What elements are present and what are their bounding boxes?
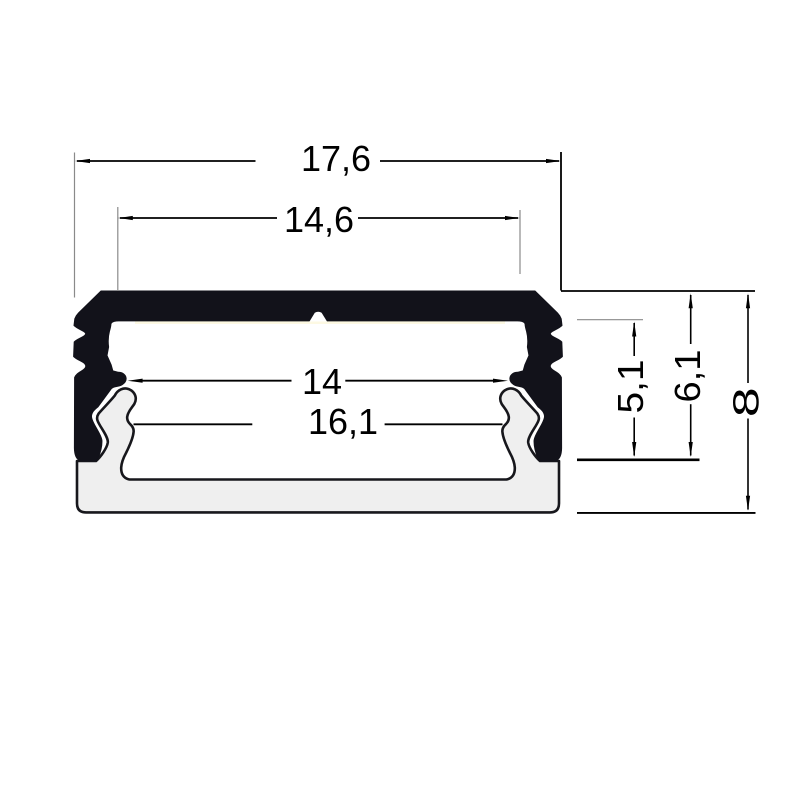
svg-text:8: 8 [726, 387, 767, 417]
svg-text:6,1: 6,1 [667, 350, 708, 403]
dimension 5,1 line lower segment [633, 418, 635, 456]
arrowhead left of dimension 17,6 [75, 159, 90, 163]
arrowhead bottom of dimension 8 [746, 496, 750, 511]
svg-text:14: 14 [302, 361, 342, 402]
svg-text:17,6: 17,6 [301, 138, 371, 179]
profile base tray with LED channel and retaining arms [77, 388, 559, 512]
dimension 14,6 line right segment [358, 217, 518, 219]
extension line right of dimension 14,6 [519, 210, 521, 274]
arrowhead top of dimension 8 [746, 293, 750, 308]
arrowhead top of dimension 6,1 [689, 293, 693, 308]
extension line profile bottom for dimension 8 [577, 512, 756, 514]
dimension 14 line left segment [140, 380, 292, 382]
dimension 16,1 line left segment [134, 423, 253, 425]
arrowhead right of dimension 14,6 [505, 216, 520, 220]
diffuser glow line under cover [135, 321, 505, 324]
dimension 8 line upper segment [747, 295, 749, 383]
profile top cover section [74, 291, 563, 461]
arrowhead right of dimension 14 [493, 379, 508, 383]
dimension 14 line right segment [345, 380, 495, 382]
extension line shelf level for dimensions 5,1 and 6,1 [577, 458, 700, 461]
extension line left of dimension 17,6 [74, 153, 76, 298]
dimension 8 line lower segment [747, 419, 749, 510]
arrowhead bottom of dimension 5,1 [632, 442, 636, 457]
svg-text:16,1: 16,1 [308, 401, 378, 442]
dimension 5,1 line upper segment [633, 323, 635, 356]
arrowhead bottom of dimension 6,1 [689, 442, 693, 457]
svg-text:14,6: 14,6 [284, 199, 354, 240]
dimension 6,1 line lower segment [690, 404, 692, 455]
arrowhead left of dimension 14 [128, 379, 143, 383]
arrowhead right of dimension 17,6 [546, 159, 561, 163]
arrowhead top of dimension 5,1 [632, 322, 636, 337]
dimension 16,1 line right segment [385, 423, 503, 425]
dimension 14,6 line left segment [120, 217, 277, 219]
extension line right of dimension 17,6 [560, 152, 562, 291]
dimension 6,1 line upper segment [690, 295, 692, 344]
svg-text:5,1: 5,1 [610, 360, 651, 414]
extension line cavity ceiling for dimension 5,1 [577, 319, 643, 321]
center notch in cover bar [310, 312, 328, 322]
extension line left of dimension 14,6 [117, 207, 119, 291]
arrowhead left of dimension 14,6 [118, 216, 133, 220]
extension line profile top for dimensions 6,1 and 8 [561, 290, 755, 292]
dimension 17,6 line left segment [77, 160, 256, 162]
dimension 17,6 line right segment [380, 160, 559, 162]
